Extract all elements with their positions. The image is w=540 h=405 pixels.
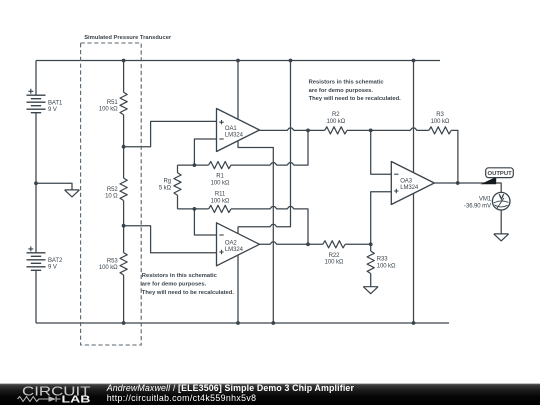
node dots (34, 59, 460, 325)
svg-text:R52: R52 (107, 187, 119, 193)
wire OA3 inverting node to R3 (371, 128, 429, 130)
wire OA3 inverting input (371, 130, 392, 174)
svg-text:R3: R3 (436, 112, 444, 118)
wire R33 top lead (370, 244, 372, 251)
svg-text:R33: R33 (377, 257, 389, 263)
svg-text:R11: R11 (215, 192, 226, 198)
svg-text:are for demo purposes.: are for demo purposes. (309, 88, 374, 94)
wire OA1 inverting input (194, 139, 216, 165)
svg-text:Resistors in this schematic: Resistors in this schematic (309, 79, 385, 85)
OUTPUT node label box (486, 168, 514, 178)
svg-text:BAT2: BAT2 (48, 258, 63, 264)
svg-text:100 kΩ: 100 kΩ (211, 198, 230, 204)
svg-text:100 kΩ: 100 kΩ (211, 180, 230, 186)
svg-text:OA1: OA1 (225, 126, 238, 132)
wire top rail V+ (36, 60, 440, 62)
svg-text:9 V: 9 V (48, 107, 57, 113)
svg-text:R53: R53 (107, 258, 119, 264)
wire Rg top lead (177, 165, 179, 173)
wire OA2 Vminus (237, 255, 239, 323)
wire OA1 Vplus (237, 61, 239, 120)
resistor R3 100k (429, 127, 451, 134)
wire R1 right to OA1 output (231, 130, 308, 165)
footer logo schematic glyph (18, 396, 61, 401)
svg-text:BAT1: BAT1 (48, 100, 63, 106)
svg-text:OA3: OA3 (400, 179, 413, 185)
svg-text:They will need to be recalcula: They will need to be recalculated. (142, 290, 235, 296)
svg-text:They will need to be recalcula: They will need to be recalculated. (309, 96, 402, 102)
resistor R51 100k (120, 92, 127, 114)
resistor R2 100k (325, 127, 347, 134)
wire OA3 Vplus (413, 61, 415, 173)
wire R2 to OA3 inverting node (347, 129, 371, 131)
resistor R22 100k (323, 241, 345, 248)
battery BAT2 (27, 246, 46, 270)
svg-text:R51: R51 (107, 100, 119, 106)
svg-text:R22: R22 (329, 253, 341, 259)
wire OA3 Vminus (413, 193, 415, 323)
svg-text:100 kΩ: 100 kΩ (431, 119, 450, 125)
svg-text:9 V: 9 V (48, 265, 57, 271)
svg-text:OUTPUT: OUTPUT (487, 171, 512, 177)
svg-text:Simulated Pressure Transducer: Simulated Pressure Transducer (84, 35, 172, 41)
wire Rg bottom lead (177, 195, 179, 209)
dashed annotation box: Simulated Pressure Transducer (81, 43, 142, 345)
op-amp OA2 (217, 223, 260, 266)
resistor R52 10ohm (120, 178, 127, 200)
wire node A run (178, 164, 209, 166)
wire OA3 noninverting input (371, 192, 392, 245)
wire OA1 output to R2 (260, 128, 325, 130)
wire R51-R52 link (123, 115, 125, 178)
svg-text:5 kΩ: 5 kΩ (159, 186, 172, 192)
wire node B run (178, 208, 209, 210)
wire R53 bottom lead (123, 275, 125, 323)
resistor R11 100k (209, 205, 231, 212)
svg-text:-36.90 mV: -36.90 mV (464, 203, 491, 209)
svg-text:100 kΩ: 100 kΩ (99, 107, 118, 113)
wire OA2 output to R22 (260, 242, 323, 244)
battery BAT1 (27, 89, 46, 113)
wire voltmeter to ground (500, 210, 502, 234)
wire R51 top lead (123, 61, 125, 93)
svg-text:R2: R2 (332, 112, 340, 118)
svg-text:LM324: LM324 (225, 132, 244, 138)
svg-text:Rg: Rg (163, 179, 171, 185)
svg-text:OA2: OA2 (225, 241, 238, 247)
wire OA1 Vminus (238, 141, 273, 323)
wire OA2 inverting input (194, 209, 216, 235)
wire R11 right to OA2 output (231, 207, 308, 245)
resistor R1 100k (209, 162, 231, 169)
ground (under VM1) (494, 234, 509, 241)
svg-text:100 kΩ: 100 kΩ (99, 265, 118, 271)
wire R22 to node C (345, 243, 371, 245)
wire R33 bottom lead (370, 274, 372, 287)
op-amp OA3 (391, 162, 434, 205)
wire R52-R53 link (123, 201, 125, 253)
svg-text:are for demo purposes.: are for demo purposes. (142, 282, 207, 288)
svg-text:10 Ω: 10 Ω (105, 194, 118, 200)
wire bottom rail V- (36, 322, 449, 324)
svg-text:AndrewMaxwell / [ELE3506] Simp: AndrewMaxwell / [ELE3506] Simple Demo 3 … (106, 383, 355, 393)
svg-text:VM1: VM1 (479, 197, 492, 203)
svg-text:http://circuitlab.com/ct4k559n: http://circuitlab.com/ct4k559nhx5v8 (107, 393, 257, 403)
resistor R33 100k (367, 251, 374, 273)
svg-text:LM324: LM324 (225, 247, 244, 253)
wire OA2 Vplus (238, 61, 291, 234)
svg-text:LAB: LAB (62, 394, 91, 405)
wire left rail upper (35, 61, 37, 96)
ground (left rail) (65, 190, 80, 197)
wire OA3 output (434, 183, 501, 192)
svg-text:100 kΩ: 100 kΩ (326, 119, 345, 125)
svg-text:100 kΩ: 100 kΩ (377, 263, 396, 269)
wire left rail middle (35, 113, 37, 253)
wire OA1 noninverting input (124, 121, 217, 146)
wire ground tap (36, 183, 72, 190)
svg-text:100 kΩ: 100 kΩ (325, 260, 344, 266)
OUTPUT flag pointer (481, 177, 497, 184)
wire left rail lower (35, 271, 37, 324)
footer bar (0, 384, 540, 405)
op-amp OA1 (217, 109, 260, 152)
resistor R53 100k (120, 253, 127, 275)
wire OA2 noninverting input (124, 226, 217, 253)
svg-text:Resistors in this schematic: Resistors in this schematic (142, 273, 218, 279)
wire R3 to output node (451, 130, 458, 183)
svg-text:R1: R1 (216, 174, 224, 180)
resistor Rg 5k (174, 173, 181, 195)
voltmeter VM1 (492, 192, 510, 210)
ground (under R33) (363, 287, 378, 294)
svg-text:LM324: LM324 (400, 185, 419, 191)
